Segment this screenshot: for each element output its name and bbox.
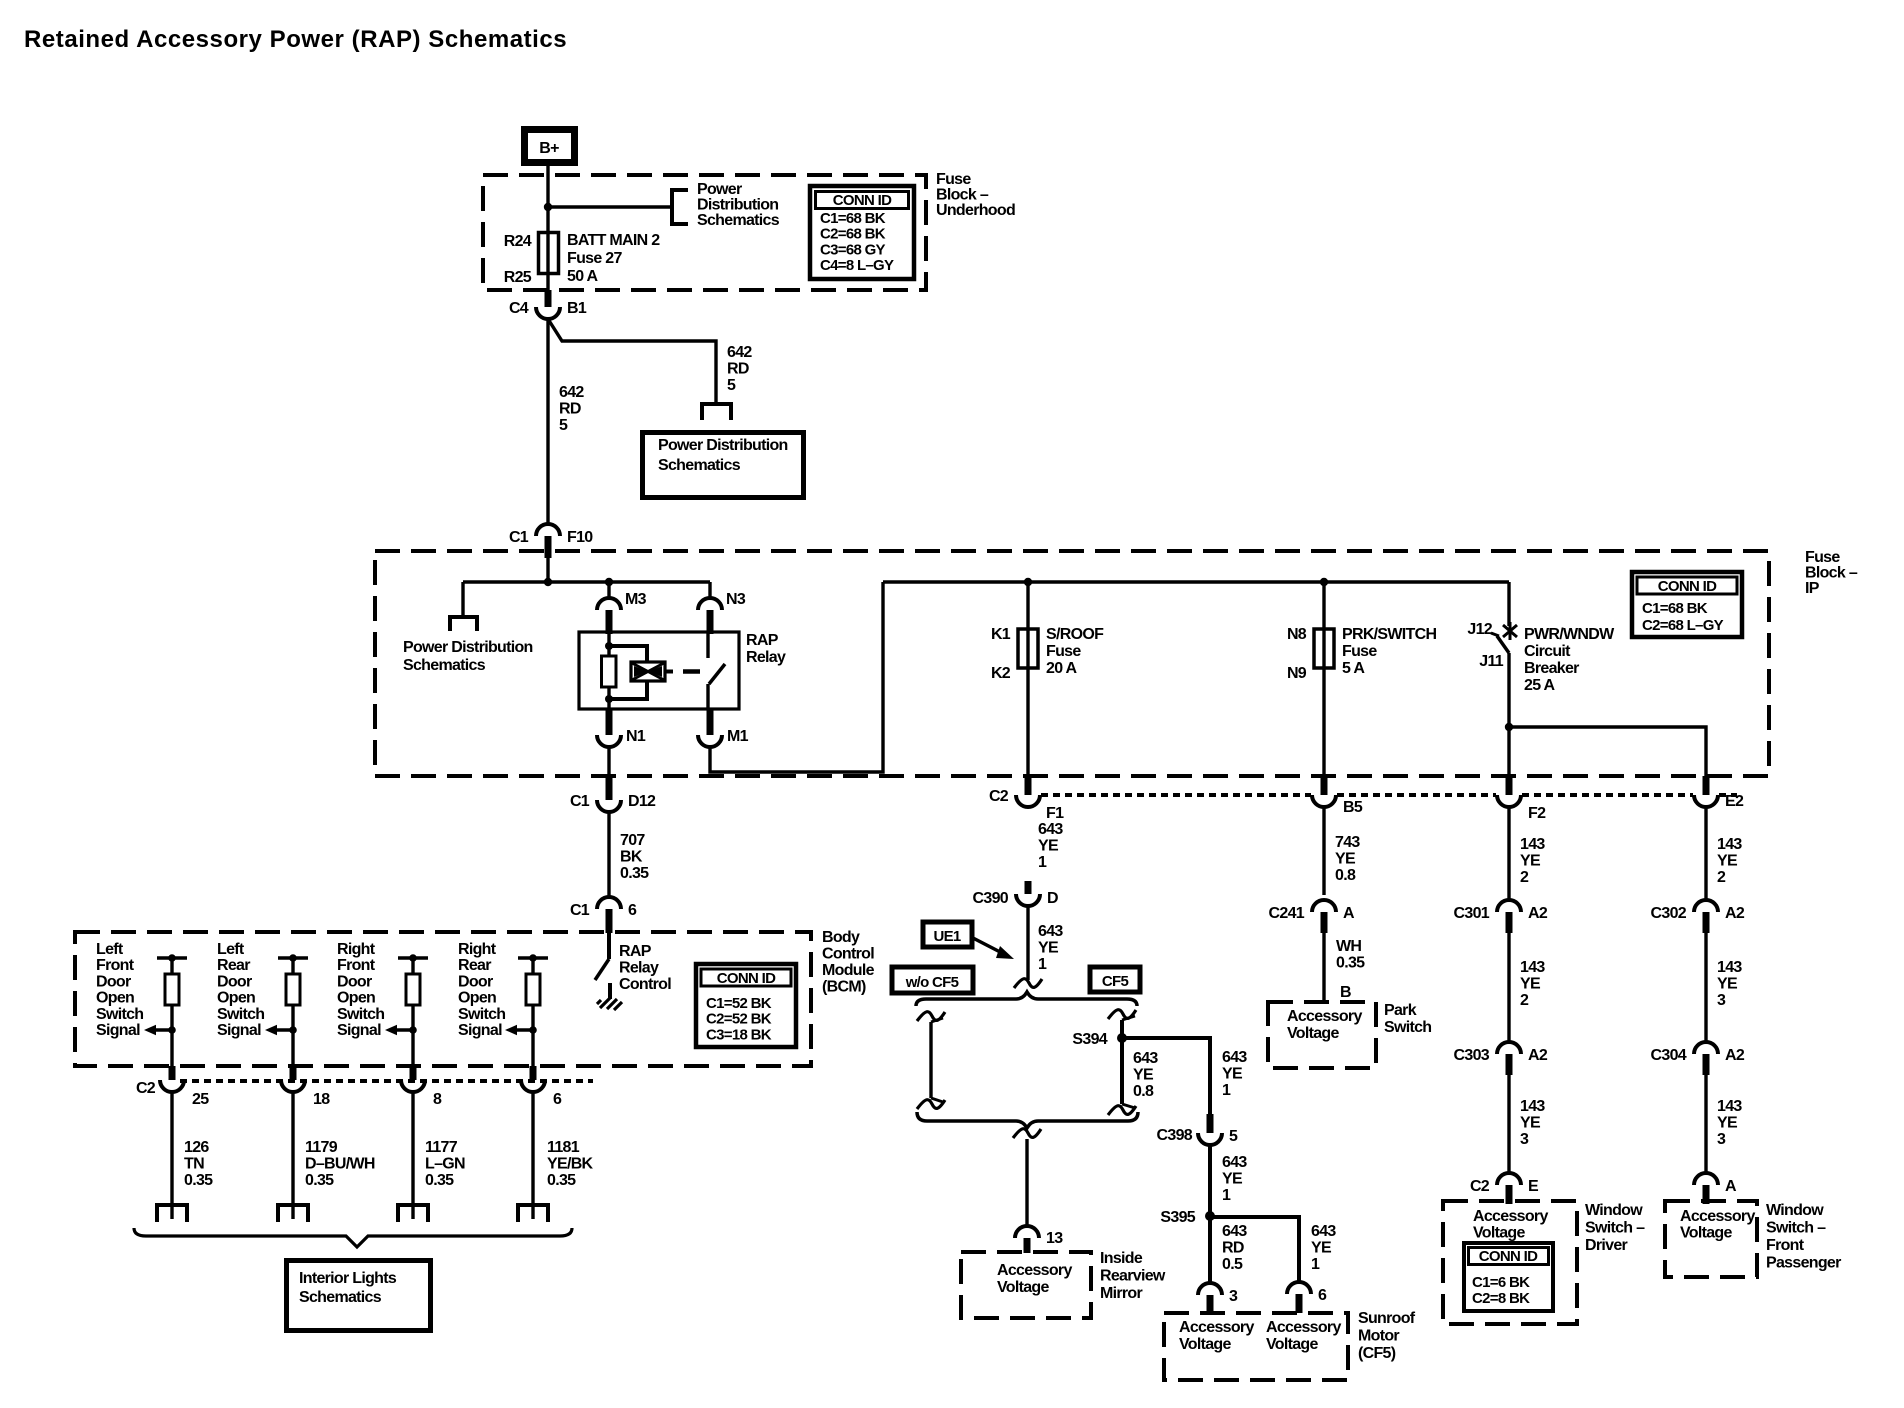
svg-text:3: 3 — [1520, 1131, 1529, 1148]
wire C304 to window switch passenger — [1704, 1075, 1707, 1173]
relay switch blade — [709, 664, 725, 684]
Body Control Module dashed box — [75, 932, 811, 1066]
svg-text:S395: S395 — [1160, 1209, 1195, 1226]
svg-text:CONN ID: CONN ID — [1479, 1248, 1538, 1265]
switch cell top bar (Left Rear) — [278, 956, 308, 959]
chassis ground — [597, 997, 622, 1010]
svg-text:YE: YE — [1335, 851, 1356, 868]
svg-text:Left: Left — [217, 941, 245, 958]
svg-text:N8: N8 — [1287, 626, 1307, 643]
off-page bracket (Right Rear) — [518, 1205, 548, 1222]
svg-text:F10: F10 — [567, 529, 593, 546]
svg-text:M3: M3 — [625, 591, 647, 608]
svg-text:1: 1 — [1038, 956, 1047, 973]
svg-text:Switch –: Switch – — [1766, 1220, 1826, 1237]
svg-text:YE: YE — [1520, 976, 1541, 993]
svg-text:Accessory: Accessory — [1287, 1008, 1362, 1025]
off-page bracket above power distribution box — [702, 404, 731, 420]
svg-text:5: 5 — [727, 377, 736, 394]
signal arrow (Left Front) — [155, 1028, 172, 1031]
CONN ID table - underhood — [810, 186, 914, 279]
svg-text:YE/BK: YE/BK — [547, 1156, 594, 1173]
wire to interior lights (Right Rear) — [531, 1092, 534, 1219]
splice S395 — [1205, 1211, 1215, 1221]
svg-text:1: 1 — [1311, 1256, 1320, 1273]
svg-text:Voltage: Voltage — [1473, 1225, 1526, 1242]
svg-text:0.8: 0.8 — [1133, 1083, 1154, 1100]
svg-text:Fuse: Fuse — [1342, 643, 1377, 660]
svg-text:6: 6 — [1318, 1287, 1327, 1304]
svg-text:Fuse 27: Fuse 27 — [567, 250, 622, 267]
signal arrow (Right Front) — [396, 1028, 413, 1031]
svg-text:Accessory: Accessory — [1179, 1319, 1254, 1336]
svg-text:Power Distribution: Power Distribution — [658, 437, 788, 454]
fuse S/ROOF 20A — [1018, 629, 1038, 668]
svg-text:Open: Open — [96, 990, 134, 1007]
svg-text:Underhood: Underhood — [936, 202, 1015, 219]
B+ battery terminal — [525, 130, 575, 163]
svg-text:707: 707 — [620, 832, 645, 849]
svg-text:YE: YE — [1717, 976, 1738, 993]
svg-text:Mirror: Mirror — [1100, 1285, 1143, 1302]
Window Switch - Driver dashed box — [1443, 1201, 1577, 1324]
svg-text:YE: YE — [1222, 1066, 1243, 1083]
svg-text:C1: C1 — [570, 902, 590, 919]
svg-text:8: 8 — [433, 1091, 442, 1108]
wire fuse to B5 — [1322, 668, 1325, 779]
wire resistor down (Left Front) — [170, 1005, 173, 1068]
wire E2 to C302 — [1704, 807, 1707, 900]
svg-text:Voltage: Voltage — [1680, 1225, 1733, 1242]
connector C1/D12 — [606, 777, 613, 800]
svg-text:TN: TN — [184, 1156, 204, 1173]
svg-text:C2=68 BK: C2=68 BK — [820, 226, 886, 243]
switch cell top bar (Right Rear) — [518, 956, 548, 959]
svg-text:C2=8 BK: C2=8 BK — [1472, 1290, 1530, 1307]
svg-text:Block –: Block – — [1805, 565, 1858, 582]
wire B5 to C241 — [1322, 807, 1325, 895]
svg-text:5 A: 5 A — [1342, 660, 1365, 677]
svg-text:C1: C1 — [570, 793, 590, 810]
svg-text:E2: E2 — [1725, 793, 1744, 810]
svg-text:IP: IP — [1805, 580, 1820, 597]
svg-text:Park: Park — [1384, 1002, 1417, 1019]
svg-text:Motor: Motor — [1358, 1328, 1399, 1345]
wire F10 into bus — [546, 554, 549, 582]
svg-text:PWR/WNDW: PWR/WNDW — [1524, 626, 1615, 643]
resistor door switch (Left Front) — [170, 958, 173, 974]
svg-text:Switch: Switch — [458, 1006, 505, 1023]
svg-text:C2: C2 — [1470, 1178, 1490, 1195]
circuit breaker PWR/WNDW contact mark — [1503, 622, 1517, 640]
svg-text:D–BU/WH: D–BU/WH — [305, 1156, 375, 1173]
svg-text:Circuit: Circuit — [1524, 643, 1571, 660]
connector M3 — [597, 598, 621, 610]
svg-text:0.35: 0.35 — [620, 865, 649, 882]
wire fuse to F1 — [1026, 668, 1029, 779]
svg-text:642: 642 — [727, 344, 752, 361]
svg-text:Signal: Signal — [217, 1022, 261, 1039]
svg-text:Door: Door — [96, 973, 131, 990]
svg-text:YE: YE — [1520, 853, 1541, 870]
svg-text:Voltage: Voltage — [1179, 1336, 1232, 1353]
svg-text:CONN ID: CONN ID — [717, 970, 776, 987]
CONN ID table - window switch driver — [1464, 1243, 1553, 1311]
wire to interior lights (Right Front) — [411, 1092, 414, 1219]
svg-text:642: 642 — [559, 384, 584, 401]
wire C301 to C303 — [1507, 933, 1510, 1042]
connector pin 8 (Right Front) — [410, 1066, 417, 1080]
svg-text:C2: C2 — [136, 1080, 156, 1097]
wire S394 to C398 — [1122, 1038, 1210, 1114]
svg-text:Right: Right — [458, 941, 497, 958]
svg-text:J12: J12 — [1467, 621, 1492, 638]
svg-text:C301: C301 — [1454, 905, 1490, 922]
svg-text:Open: Open — [337, 990, 375, 1007]
svg-text:Passenger: Passenger — [1766, 1255, 1841, 1272]
svg-text:2: 2 — [1520, 869, 1529, 886]
svg-text:143: 143 — [1717, 959, 1742, 976]
svg-text:Accessory: Accessory — [997, 1262, 1072, 1279]
connector F2 — [1506, 776, 1513, 795]
RAP relay control ground stub — [608, 983, 612, 999]
wire S395 down — [1208, 1217, 1212, 1283]
node signal junction (Left Front) — [168, 1026, 176, 1034]
svg-text:0.8: 0.8 — [1335, 867, 1356, 884]
svg-text:1181: 1181 — [547, 1139, 580, 1156]
svg-text:C304: C304 — [1651, 1047, 1687, 1064]
svg-text:C390: C390 — [973, 890, 1009, 907]
connector C2/F1 — [1025, 776, 1032, 795]
svg-text:RD: RD — [727, 361, 749, 378]
bus wire left section — [463, 580, 710, 583]
wire to inside rearview mirror — [1025, 1139, 1028, 1226]
wire C303 to window switch driver — [1507, 1075, 1510, 1173]
svg-text:D: D — [1047, 890, 1058, 907]
svg-text:3: 3 — [1717, 992, 1726, 1009]
svg-text:YE: YE — [1038, 838, 1059, 855]
svg-text:Signal: Signal — [458, 1022, 502, 1039]
svg-text:Door: Door — [217, 973, 252, 990]
wire B+ down — [546, 165, 549, 209]
svg-text:YE: YE — [1038, 940, 1059, 957]
svg-text:N9: N9 — [1287, 665, 1307, 682]
wire C4 down to C1/F10 — [546, 319, 549, 524]
svg-text:2: 2 — [1717, 869, 1726, 886]
svg-text:Switch: Switch — [217, 1006, 264, 1023]
wire junction to fuse — [546, 207, 549, 234]
svg-text:B+: B+ — [539, 140, 559, 157]
svg-text:25: 25 — [192, 1091, 209, 1108]
svg-text:C1=6 BK: C1=6 BK — [1472, 1274, 1530, 1291]
relay coil box with bowtie — [631, 662, 665, 681]
resistor door switch (Right Rear) — [531, 958, 534, 974]
svg-text:C1=68 BK: C1=68 BK — [1642, 600, 1708, 617]
CONN ID table - IP — [1632, 572, 1742, 637]
signal arrow (Left Rear) — [276, 1028, 293, 1031]
Park Switch dashed box — [1268, 1002, 1376, 1068]
UE1 arrow — [973, 938, 1004, 954]
svg-text:C302: C302 — [1651, 905, 1687, 922]
svg-text:Relay: Relay — [746, 649, 786, 666]
relay switch fixed wire — [706, 633, 709, 658]
svg-text:Switch: Switch — [337, 1006, 384, 1023]
node junction below B+ — [544, 203, 552, 211]
node signal junction (Left Rear) — [289, 1026, 297, 1034]
wire C390 down — [1026, 906, 1029, 980]
svg-text:Rearview: Rearview — [1100, 1268, 1166, 1285]
node relay coil bottom junction — [605, 695, 613, 703]
underbrace variant merge — [917, 1112, 1138, 1128]
svg-text:C2=52 BK: C2=52 BK — [706, 1011, 772, 1028]
svg-text:A2: A2 — [1528, 905, 1548, 922]
svg-text:Schematics: Schematics — [403, 657, 486, 674]
svg-text:143: 143 — [1717, 836, 1742, 853]
svg-text:C1=52 BK: C1=52 BK — [706, 995, 772, 1012]
wire drop to circuit breaker — [1507, 582, 1510, 626]
connector 3 — [1198, 1283, 1222, 1295]
fuse PRK/SWITCH 5A — [1314, 629, 1334, 668]
svg-text:1177: 1177 — [425, 1139, 458, 1156]
svg-text:6: 6 — [553, 1091, 562, 1108]
coil stub — [665, 670, 673, 674]
connector pin 25 (Left Front) — [169, 1066, 176, 1080]
connector C1/F10 — [536, 524, 560, 536]
svg-text:Rear: Rear — [217, 957, 250, 974]
wire to power distribution reference — [548, 205, 672, 208]
svg-text:Open: Open — [217, 990, 255, 1007]
svg-text:Interior Lights: Interior Lights — [299, 1270, 397, 1287]
svg-text:0.35: 0.35 — [305, 1172, 334, 1189]
CONN ID table - BCM — [696, 964, 796, 1047]
svg-text:RD: RD — [559, 401, 581, 418]
svg-text:25 A: 25 A — [1524, 677, 1556, 694]
node junction to E2 branch — [1505, 723, 1513, 731]
svg-text:C3=18 BK: C3=18 BK — [706, 1026, 772, 1043]
wire C398 to S395 — [1208, 1145, 1212, 1216]
svg-text:20 A: 20 A — [1046, 660, 1078, 677]
svg-text:Distribution: Distribution — [697, 197, 778, 214]
svg-text:Front: Front — [96, 957, 135, 974]
svg-text:Schematics: Schematics — [697, 212, 780, 229]
wire resistor down (Right Rear) — [531, 1005, 534, 1068]
svg-text:D12: D12 — [628, 793, 656, 810]
svg-text:1179: 1179 — [305, 1139, 338, 1156]
wire to interior lights (Left Front) — [170, 1092, 173, 1219]
svg-text:K2: K2 — [991, 665, 1011, 682]
connector C304/A2 — [1694, 1042, 1718, 1054]
svg-text:Accessory: Accessory — [1680, 1208, 1755, 1225]
wire break (top) — [1014, 979, 1042, 988]
svg-text:743: 743 — [1335, 834, 1360, 851]
svg-text:Door: Door — [458, 973, 493, 990]
off-page bracket (Right Front) — [398, 1205, 428, 1222]
svg-text:Accessory: Accessory — [1266, 1319, 1341, 1336]
wire D12 to C1/6 — [607, 812, 610, 897]
svg-text:YE: YE — [1717, 853, 1738, 870]
svg-text:Fuse: Fuse — [936, 171, 971, 188]
node junction PRK/SWITCH drop — [1320, 578, 1328, 586]
svg-text:J11: J11 — [1479, 653, 1504, 670]
svg-text:A2: A2 — [1725, 905, 1745, 922]
svg-text:A2: A2 — [1528, 1047, 1548, 1064]
node relay coil top junction — [605, 642, 613, 650]
svg-text:1: 1 — [1222, 1082, 1231, 1099]
relay RAP Relay box — [579, 632, 739, 709]
svg-text:(CF5): (CF5) — [1358, 1345, 1396, 1362]
svg-text:F2: F2 — [1528, 805, 1546, 822]
dotted connector row line (BCM C2) — [180, 1079, 593, 1083]
svg-text:K1: K1 — [991, 626, 1011, 643]
svg-text:Right: Right — [337, 941, 376, 958]
resistor door switch (Right Front) — [411, 958, 414, 974]
svg-text:Switch –: Switch – — [1585, 1220, 1645, 1237]
wire to interior lights (Left Rear) — [291, 1092, 294, 1219]
svg-text:w/o CF5: w/o CF5 — [905, 974, 959, 991]
svg-text:126: 126 — [184, 1139, 209, 1156]
svg-text:0.35: 0.35 — [184, 1172, 213, 1189]
svg-text:Block –: Block – — [936, 187, 989, 204]
RAP relay control wire — [607, 933, 611, 959]
svg-text:Power: Power — [697, 181, 742, 198]
svg-text:143: 143 — [1717, 1098, 1742, 1115]
svg-text:L–GN: L–GN — [425, 1156, 465, 1173]
wire branch to E2 — [1509, 727, 1706, 779]
node signal junction (Right Rear) — [529, 1026, 537, 1034]
svg-text:Door: Door — [337, 973, 372, 990]
dashed link coil to switch — [683, 669, 700, 674]
node junction at M3 drop — [605, 578, 613, 586]
resistor (relay) — [602, 656, 617, 687]
svg-text:643: 643 — [1222, 1223, 1247, 1240]
svg-text:0.35: 0.35 — [1336, 955, 1365, 972]
svg-text:Control: Control — [619, 976, 671, 993]
connector C2/E — [1497, 1173, 1521, 1185]
connector E2 — [1703, 776, 1710, 795]
svg-text:Left: Left — [96, 941, 124, 958]
svg-text:Signal: Signal — [96, 1022, 140, 1039]
svg-text:C2=68 L–GY: C2=68 L–GY — [1642, 617, 1724, 634]
wire break (bottom) — [1013, 1129, 1041, 1138]
wire coil branch bottom — [609, 681, 647, 699]
svg-text:Front: Front — [337, 957, 376, 974]
svg-text:3: 3 — [1229, 1288, 1238, 1305]
node junction S/ROOF drop — [1024, 578, 1032, 586]
wire branch diagonal to power distribution — [548, 319, 716, 404]
svg-text:13: 13 — [1046, 1230, 1063, 1247]
wire coil branch top — [609, 646, 647, 662]
svg-text:0.35: 0.35 — [547, 1172, 576, 1189]
Window Switch - Front Passenger dashed box — [1665, 1201, 1757, 1277]
svg-text:E: E — [1528, 1178, 1539, 1195]
svg-text:N3: N3 — [726, 591, 746, 608]
signal arrow (Right Rear) — [516, 1028, 533, 1031]
svg-text:YE: YE — [1133, 1067, 1154, 1084]
svg-text:C2: C2 — [989, 788, 1009, 805]
svg-text:643: 643 — [1133, 1050, 1158, 1067]
svg-text:Sunroof: Sunroof — [1358, 1310, 1416, 1327]
connector C390/D — [1025, 881, 1032, 894]
node junction at F10 drop — [544, 578, 552, 586]
svg-text:R24: R24 — [504, 233, 532, 250]
Power Distribution Schematics box — [643, 433, 804, 498]
svg-text:UE1: UE1 — [933, 928, 960, 945]
svg-text:RD: RD — [1222, 1240, 1244, 1257]
Inside Rearview Mirror dashed box — [961, 1252, 1091, 1318]
svg-text:N1: N1 — [626, 728, 646, 745]
svg-text:5: 5 — [559, 417, 568, 434]
wire fuse to connector C4 — [546, 272, 549, 295]
Interior Lights Schematics box — [287, 1261, 431, 1331]
svg-text:A2: A2 — [1725, 1047, 1745, 1064]
connector pin 6 (Right Rear) — [530, 1066, 537, 1080]
connector C4/B1 — [545, 290, 552, 307]
CF5 flag box — [1090, 967, 1140, 992]
svg-text:Inside: Inside — [1100, 1250, 1143, 1267]
wire breaker down — [1507, 653, 1510, 779]
resistor door switch (Left Rear) — [291, 958, 294, 974]
bus wire right section — [883, 580, 1509, 583]
connector 6 — [1287, 1282, 1311, 1294]
svg-text:0.5: 0.5 — [1222, 1256, 1243, 1273]
svg-text:Control: Control — [822, 946, 874, 963]
svg-text:B: B — [1340, 984, 1351, 1001]
svg-text:Window: Window — [1585, 1202, 1643, 1219]
svg-text:Signal: Signal — [337, 1022, 381, 1039]
svg-text:YE: YE — [1311, 1240, 1332, 1257]
svg-text:Fuse: Fuse — [1805, 549, 1840, 566]
svg-text:Voltage: Voltage — [1266, 1336, 1319, 1353]
svg-text:A: A — [1725, 1178, 1737, 1195]
UE1 flag box — [923, 922, 972, 947]
off-page bracket (Left Front) — [157, 1205, 187, 1222]
svg-text:C241: C241 — [1269, 905, 1305, 922]
svg-text:Retained Accessory Power (RAP): Retained Accessory Power (RAP) Schematic… — [24, 26, 567, 53]
svg-text:Accessory: Accessory — [1473, 1208, 1548, 1225]
svg-text:YE: YE — [1222, 1171, 1243, 1188]
svg-text:3: 3 — [1717, 1131, 1726, 1148]
svg-text:C1=68 BK: C1=68 BK — [820, 210, 886, 227]
off-page bracket (power distribution) — [672, 190, 688, 224]
wire M1 return to bus — [710, 582, 883, 772]
wire drop to PRK/SWITCH fuse — [1322, 582, 1325, 629]
svg-text:Schematics: Schematics — [658, 457, 741, 474]
svg-text:A: A — [1343, 905, 1355, 922]
svg-text:CONN ID: CONN ID — [833, 192, 892, 209]
svg-text:1: 1 — [1038, 854, 1047, 871]
switch cell top bar (Right Front) — [398, 956, 428, 959]
connector C398/5 — [1207, 1114, 1214, 1133]
svg-text:C303: C303 — [1454, 1047, 1490, 1064]
svg-text:5: 5 — [1229, 1128, 1238, 1145]
svg-text:CF5: CF5 — [1102, 973, 1129, 990]
wire N3 drop — [708, 582, 711, 600]
svg-text:S/ROOF: S/ROOF — [1046, 626, 1104, 643]
svg-text:BATT MAIN 2: BATT MAIN 2 — [567, 232, 660, 249]
w/o CF5 pass-through wire — [917, 1012, 945, 1021]
wire switch to M1 — [706, 684, 709, 709]
off-page bracket (power distribution, IP) — [450, 617, 477, 631]
wire N1 down to C1/D12 — [607, 747, 610, 779]
RAP relay control switch blade — [595, 959, 609, 980]
svg-text:M1: M1 — [727, 728, 749, 745]
svg-text:YE: YE — [1520, 1115, 1541, 1132]
svg-text:1: 1 — [1222, 1187, 1231, 1204]
svg-text:WH: WH — [1336, 938, 1361, 955]
svg-text:Front: Front — [1766, 1237, 1805, 1254]
Fuse Block - Underhood dashed box — [483, 175, 926, 290]
svg-text:18: 18 — [313, 1091, 330, 1108]
